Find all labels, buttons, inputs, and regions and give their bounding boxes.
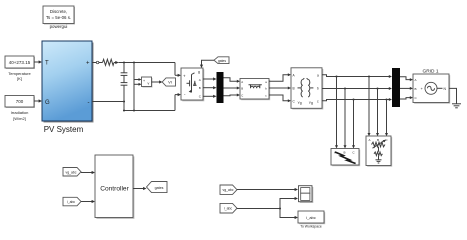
wire bar to filter A xyxy=(224,78,241,83)
svg-text:-: - xyxy=(88,100,90,106)
svg-text:700: 700 xyxy=(16,99,24,104)
svg-text:VI: VI xyxy=(168,80,172,85)
svg-text:Discrete,: Discrete, xyxy=(50,9,67,14)
wire i_abc branch xyxy=(237,197,298,219)
inductor L1 xyxy=(103,59,115,65)
svg-text:T: T xyxy=(45,61,49,67)
controller block xyxy=(95,155,134,219)
wire PV plus rail xyxy=(92,61,103,64)
wire bottom rail xyxy=(123,93,181,112)
svg-text:vg_abc: vg_abc xyxy=(223,188,234,192)
LC filter block xyxy=(240,79,270,101)
wire i_abc to controller xyxy=(81,200,95,203)
wire filter to transformer B xyxy=(269,87,291,90)
wire VM to VI xyxy=(152,80,163,83)
svg-text:Irradiation: Irradiation xyxy=(11,110,29,115)
scope block xyxy=(299,186,314,203)
svg-text:PV System: PV System xyxy=(44,125,84,134)
svg-text:Yg: Yg xyxy=(298,101,302,105)
svg-text:i_abc: i_abc xyxy=(67,200,76,204)
svg-text:b: b xyxy=(317,87,319,91)
svg-text:+: + xyxy=(143,79,145,83)
svg-text:A: A xyxy=(415,78,417,82)
svg-text:Yg: Yg xyxy=(309,101,313,105)
wire bar2 to grid A xyxy=(400,77,413,81)
svg-text:gates: gates xyxy=(155,186,164,190)
wire vg_abc to scope xyxy=(237,188,298,191)
wire PV minus xyxy=(92,101,124,103)
wire drop to load B xyxy=(376,89,379,137)
wire drop to load C xyxy=(385,100,388,137)
wire inverter A to bar xyxy=(203,77,217,80)
from tag vg_abc controller xyxy=(63,168,81,177)
svg-text:B: B xyxy=(415,87,417,91)
svg-text:To Workspace: To Workspace xyxy=(300,225,322,229)
wire grid N to ground xyxy=(449,88,457,103)
to workspace block xyxy=(298,211,325,229)
bus bar B2 xyxy=(392,68,400,107)
svg-text:i_abc: i_abc xyxy=(306,215,316,220)
powergui block xyxy=(43,6,75,29)
wire bar to filter B xyxy=(224,87,241,90)
svg-text:Controller: Controller xyxy=(100,185,129,192)
wire rail to inverter plus xyxy=(114,61,181,77)
svg-text:B: B xyxy=(199,86,201,90)
from tag i_abc controller xyxy=(63,197,81,206)
wire Irradiation to G xyxy=(34,99,42,102)
wire vg_abc to controller xyxy=(81,171,95,174)
svg-text:B: B xyxy=(343,151,345,155)
goto tag gates xyxy=(147,182,168,193)
svg-text:+: + xyxy=(86,61,90,67)
wire bar2 to grid B xyxy=(400,87,413,90)
from tag i_abc scope xyxy=(220,203,237,213)
wire drop to fault A xyxy=(335,77,338,149)
svg-text:[W/m2]: [W/m2] xyxy=(13,116,26,121)
svg-text:B: B xyxy=(293,87,295,91)
svg-text:A: A xyxy=(241,80,243,84)
three-phase load block xyxy=(366,136,392,167)
svg-text:GRID 1: GRID 1 xyxy=(423,68,439,74)
transformer T1 xyxy=(291,68,323,110)
goto tag VI xyxy=(162,78,175,86)
capacitor C1 xyxy=(121,63,128,111)
svg-text:A: A xyxy=(368,138,370,142)
wire phase C line xyxy=(322,98,392,101)
svg-text:G: G xyxy=(45,100,50,106)
svg-text:Ts = 5e-06 s.: Ts = 5e-06 s. xyxy=(46,15,71,20)
svg-text:[K]: [K] xyxy=(17,76,22,81)
svg-text:+: + xyxy=(183,74,186,79)
wire bar to filter C xyxy=(224,94,241,97)
svg-text:gates: gates xyxy=(218,59,226,63)
wire gates to g xyxy=(200,60,214,68)
svg-text:a: a xyxy=(317,73,319,77)
wire inverter C to bar xyxy=(203,95,217,98)
svg-text:B: B xyxy=(377,138,379,142)
wire drop to load A xyxy=(368,77,371,137)
svg-text:g: g xyxy=(198,70,200,74)
PV System block xyxy=(42,41,94,134)
wire phase B line xyxy=(322,87,392,90)
wire phase A line xyxy=(322,75,392,78)
wire filter to transformer C xyxy=(269,95,291,102)
inverter bridge U1 xyxy=(181,68,204,101)
voltage measurement VM xyxy=(134,63,153,111)
wire filter to transformer A xyxy=(269,73,291,81)
constant Irradiation xyxy=(5,96,35,121)
bus bar B1 xyxy=(217,72,224,103)
svg-text:C: C xyxy=(241,93,243,97)
grid source GRID 1 xyxy=(413,68,450,103)
ground xyxy=(452,104,461,108)
from tag gates xyxy=(214,57,229,64)
svg-text:v: v xyxy=(148,81,150,85)
svg-text:i_abc: i_abc xyxy=(224,207,233,211)
wire drop to fault B xyxy=(344,89,347,149)
wire bar2 to grid C xyxy=(400,96,413,99)
svg-text:vg_abc: vg_abc xyxy=(66,170,77,174)
constant Temperature xyxy=(5,56,35,81)
svg-text:B: B xyxy=(241,86,243,90)
svg-text:powergui: powergui xyxy=(50,24,68,29)
three-phase fault block xyxy=(331,149,360,167)
wire controller to gates xyxy=(133,187,147,190)
wire drop to fault C xyxy=(352,100,355,149)
wire inverter B to bar xyxy=(203,86,217,89)
from tag vg_abc scope xyxy=(220,185,237,194)
svg-text:40+273.15: 40+273.15 xyxy=(9,60,31,65)
wire Temperature to T xyxy=(34,60,42,63)
